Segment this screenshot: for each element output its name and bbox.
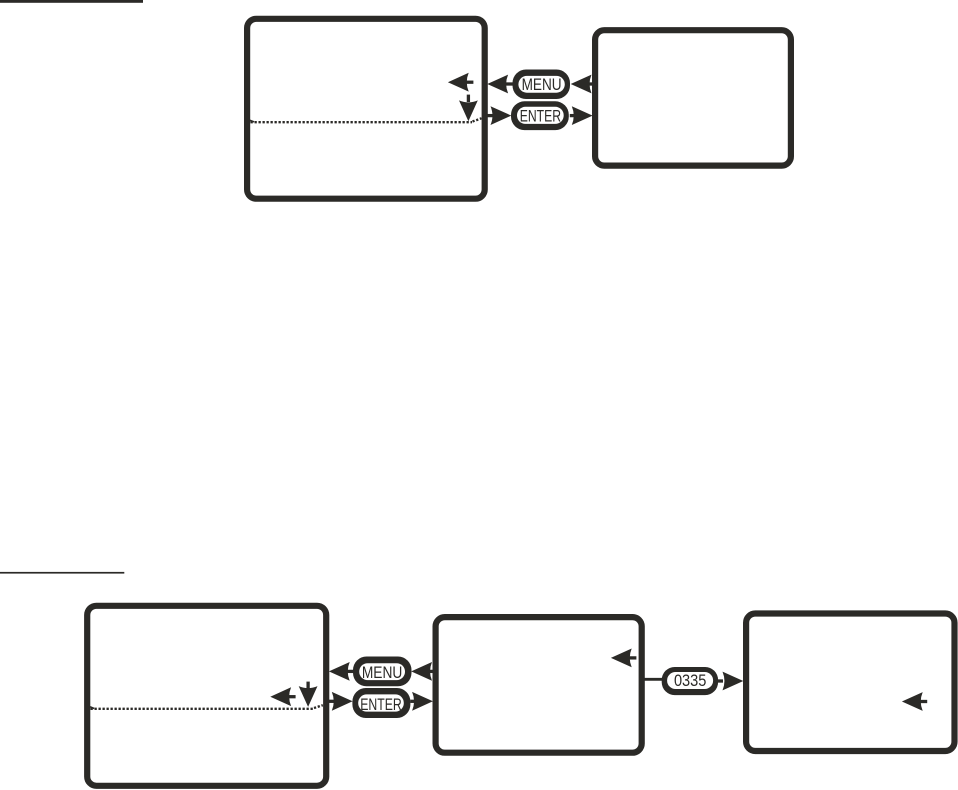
left arrow in box 3	[270, 687, 295, 706]
left arrow in box 4	[611, 649, 637, 668]
display box 5 (bottom right screen)	[746, 614, 954, 752]
0335 code tag	[662, 667, 718, 695]
ENTER button (top)	[511, 101, 569, 130]
arrow from 0335 tag to box 5	[718, 672, 743, 691]
arrow from box 2 to MENU button	[571, 75, 593, 94]
arrow from box 1 to ENTER button	[487, 106, 511, 125]
dotted divider line in box 3	[90, 705, 323, 709]
svg-text:0335: 0335	[674, 672, 707, 690]
arrow from MENU button to box 3	[329, 662, 354, 681]
svg-text:MENU: MENU	[362, 664, 403, 682]
MENU button (top)	[513, 70, 571, 100]
heading underline (top section)	[0, 0, 143, 3]
arrow from ENTER button to box 2	[570, 106, 593, 125]
down arrow in box 1	[459, 95, 478, 122]
arrow from MENU button to box 1	[487, 75, 513, 94]
display box 4 (bottom middle screen)	[436, 617, 642, 753]
heading underline (bottom section)	[0, 572, 124, 574]
MENU button (bottom)	[353, 657, 412, 687]
display box 3 (bottom left screen)	[87, 606, 326, 786]
svg-text:ENTER: ENTER	[360, 696, 402, 714]
arrow from box 3 to ENTER button	[329, 692, 353, 711]
left arrow in box 5	[902, 692, 927, 711]
left arrow in box 1	[448, 73, 474, 92]
display box 2 (top right screen)	[595, 30, 791, 165]
arrow from ENTER button to box 4	[410, 692, 433, 711]
connector line from box 4 to 0335 tag	[645, 678, 663, 681]
svg-text:MENU: MENU	[522, 76, 562, 94]
arrow from box 4 to MENU button	[411, 662, 433, 681]
svg-text:ENTER: ENTER	[520, 108, 561, 126]
ENTER button (bottom)	[352, 688, 410, 718]
dotted divider line in box 1	[250, 118, 482, 122]
display box 1 (top left screen)	[247, 19, 485, 199]
down arrow in box 3	[299, 682, 318, 707]
